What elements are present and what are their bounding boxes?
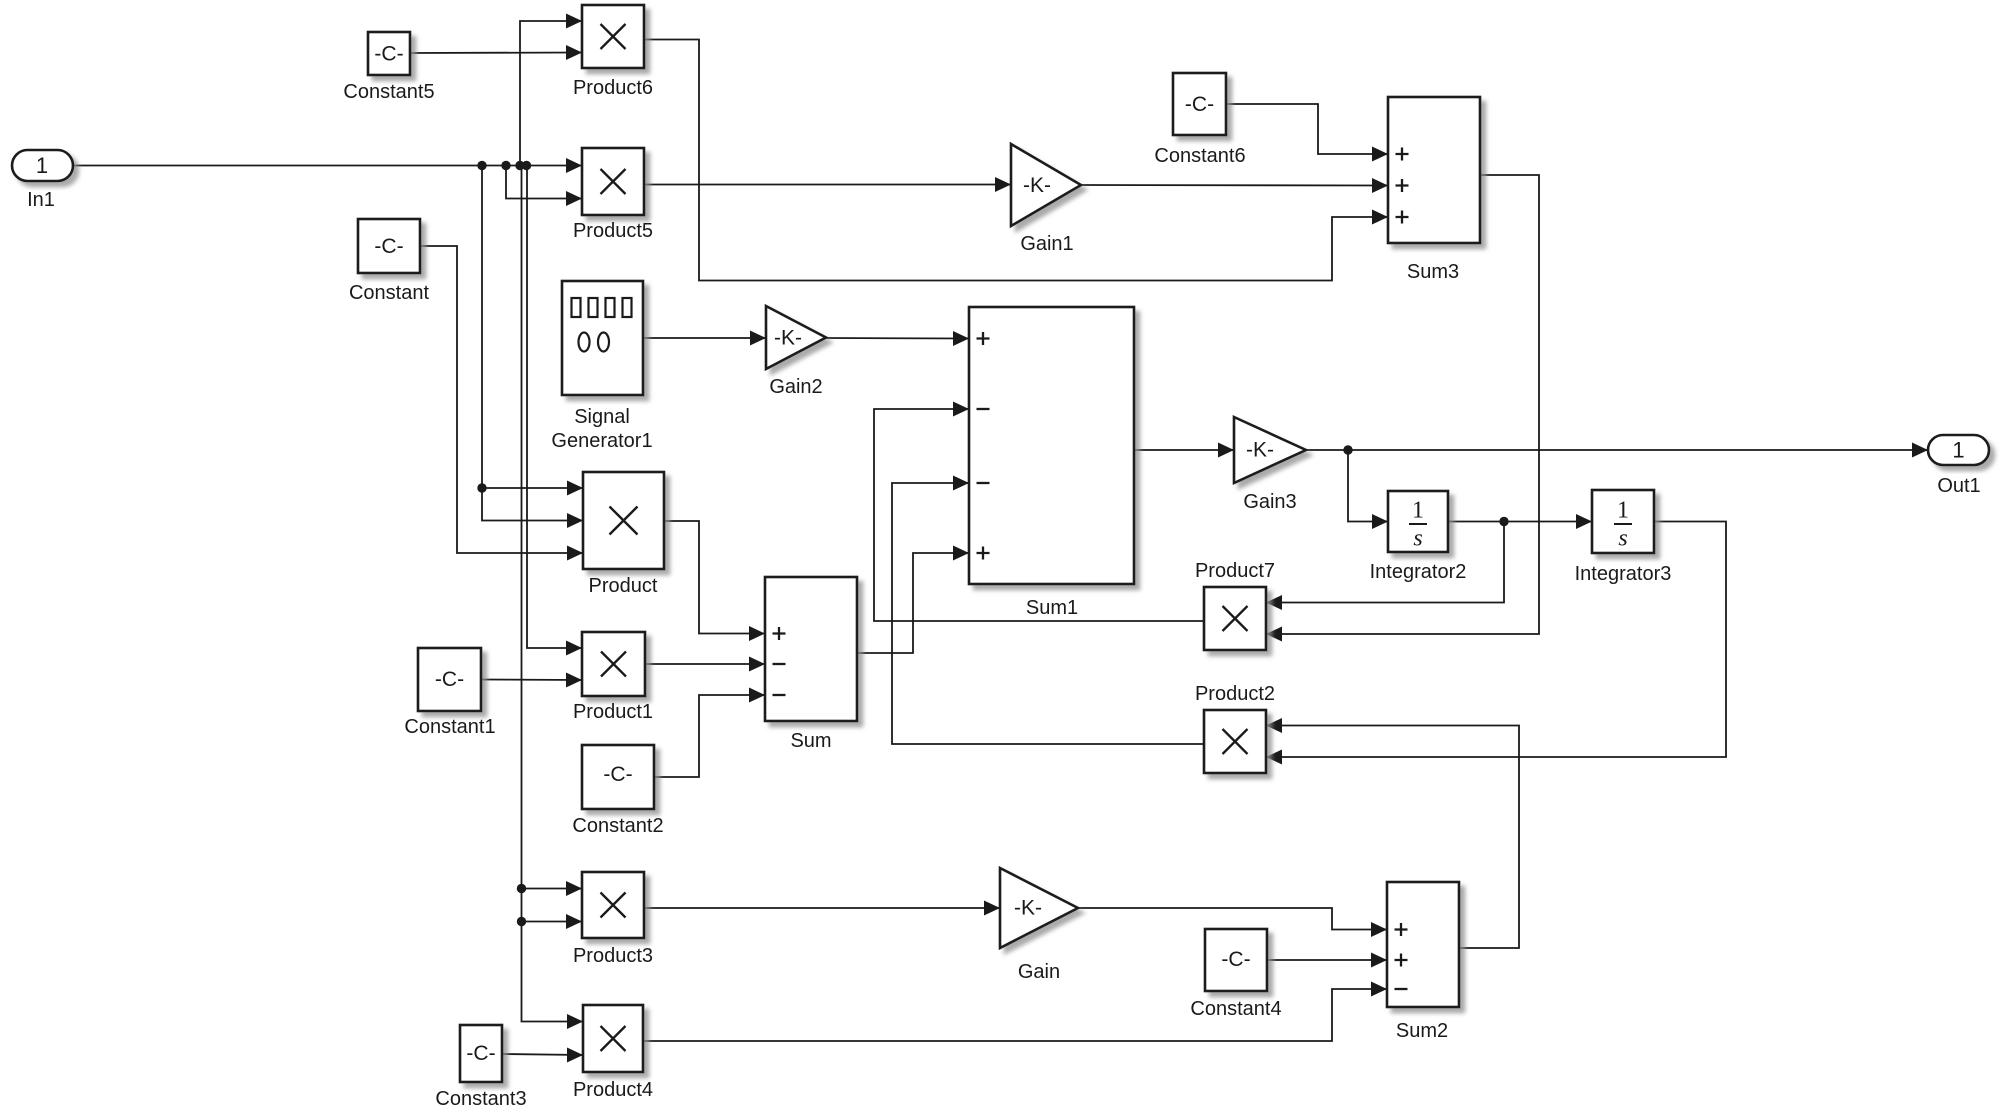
wire Constant2 to Sum input 3 [654, 695, 765, 777]
wire branch down to Product5 input 2 [506, 166, 582, 199]
svg-text:Generator1: Generator1 [551, 430, 652, 452]
svg-text:Sum: Sum [790, 730, 831, 752]
product Product2 [1204, 710, 1266, 773]
wire Integrator2 output to Integrator3 input [1448, 521, 1592, 523]
wire Sum2 output to Product2 input 1 [1266, 726, 1519, 949]
wire Constant5 to Product6 input 2 [410, 52, 582, 55]
svg-text:s: s [1413, 526, 1422, 552]
wire junction to Product input 1 [482, 487, 583, 489]
svg-text:s: s [1618, 526, 1627, 552]
svg-text:Product: Product [589, 575, 658, 597]
product Product3 [582, 872, 644, 938]
constant Constant2 [582, 745, 654, 809]
svg-text:-C-: -C- [466, 1042, 495, 1065]
sum Sum2 [1387, 882, 1459, 1007]
svg-text:Product1: Product1 [573, 701, 653, 723]
svg-text:Constant1: Constant1 [404, 716, 495, 738]
wire Product4 output to Sum2 input 3 [643, 989, 1387, 1041]
wire branch down to Product1 input 1 [527, 166, 582, 649]
svg-text:-C-: -C- [374, 235, 403, 258]
product Product (three inputs) [583, 472, 664, 569]
wire long branch down to Product4 input 1 [522, 166, 584, 1022]
constant Constant3 [460, 1025, 502, 1082]
svg-text:Sum3: Sum3 [1407, 261, 1459, 283]
wire Constant4 to Sum2 input 2 [1267, 959, 1387, 961]
product Product6 [582, 5, 644, 68]
wire Product6 output to Sum3 input 3 [644, 40, 1388, 281]
wire branch up to Product6 input 1 [520, 21, 582, 166]
wire Gain output to Sum2 input 1 [1078, 908, 1387, 930]
svg-text:-K-: -K- [1023, 174, 1051, 197]
wire Product7 output to Sum1 input 2 [874, 409, 1204, 621]
svg-text:Product7: Product7 [1195, 560, 1275, 582]
wire Product1 output to Sum input 2 [645, 663, 765, 665]
constant Constant4 [1205, 929, 1267, 991]
wire Product5 output to Gain1 [644, 184, 1011, 186]
node junction Gain3 output [1343, 445, 1352, 454]
node junction In1/Product branch [477, 161, 486, 170]
constant Constant [358, 219, 420, 273]
constant Constant5 [368, 32, 410, 75]
wire Signal Generator1 to Gain2 [643, 337, 766, 339]
wire Gain2 to Sum1 input 1 [826, 337, 969, 340]
node junction In1/Product5 branch [501, 161, 510, 170]
svg-text:Constant6: Constant6 [1154, 145, 1245, 167]
svg-text:Integrator2: Integrator2 [1370, 561, 1467, 583]
node junction Product3 input 1 [517, 884, 526, 893]
node junction Integrator2 output [1499, 517, 1508, 526]
gain Gain2 [766, 306, 826, 369]
svg-text:-K-: -K- [774, 327, 802, 350]
wire Sum1 output to Gain3 [1134, 449, 1234, 451]
wire Integrator3 output to Product2 input 2 [1266, 522, 1726, 758]
wire Gain1 to Sum3 input 2 [1081, 184, 1388, 187]
signal generator Signal Generator1 [562, 281, 643, 395]
svg-text:Constant5: Constant5 [343, 81, 434, 103]
output port Out1 [1928, 435, 1989, 465]
product Product5 [582, 148, 644, 215]
svg-text:Product3: Product3 [573, 945, 653, 967]
svg-text:1: 1 [1412, 498, 1424, 524]
svg-text:In1: In1 [27, 189, 55, 211]
svg-text:1: 1 [36, 153, 48, 178]
svg-text:Gain: Gain [1018, 961, 1060, 983]
wire junction to Product3 input 2 [522, 921, 583, 923]
wire Constant6 to Sum3 input 1 [1226, 104, 1388, 154]
svg-text:Constant3: Constant3 [435, 1088, 526, 1110]
node junction In1/Product1-Product3 branch [522, 161, 531, 170]
constant Constant1 [418, 648, 481, 711]
wire Constant to Product input 3 [420, 246, 583, 553]
svg-text:Gain1: Gain1 [1020, 233, 1073, 255]
integrator Integrator3 [1592, 490, 1654, 553]
wire Constant3 to Product4 input 2 [502, 1054, 583, 1055]
wire junction to Product3 input 1 [522, 888, 583, 890]
input port In1 [12, 150, 73, 181]
svg-text:Sum2: Sum2 [1396, 1020, 1448, 1042]
wire Constant1 to Product1 input 2 [481, 679, 582, 682]
wire branch down to Product inputs 1 and 2 [482, 166, 583, 521]
svg-text:Product2: Product2 [1195, 683, 1275, 705]
constant Constant6 [1173, 73, 1226, 135]
svg-text:-C-: -C- [1221, 948, 1250, 971]
sum Sum [765, 577, 857, 721]
svg-text:Product5: Product5 [573, 220, 653, 242]
node junction In1/Product6 branch [515, 161, 524, 170]
svg-text:Integrator3: Integrator3 [1575, 563, 1672, 585]
wire Sum output to Sum1 input 4 [857, 553, 969, 653]
sum Sum3 [1388, 97, 1480, 243]
wire In1 main line to Product5 input 1 [73, 165, 582, 167]
integrator Integrator2 [1388, 491, 1448, 552]
svg-text:-C-: -C- [374, 43, 403, 66]
svg-text:Gain2: Gain2 [769, 376, 822, 398]
wire Gain3 output to Out1 [1306, 449, 1928, 451]
svg-text:Constant: Constant [349, 282, 429, 304]
svg-text:Product4: Product4 [573, 1079, 653, 1101]
svg-text:-K-: -K- [1014, 897, 1042, 920]
node junction Product3 input 2 [517, 917, 526, 926]
svg-text:Constant4: Constant4 [1190, 998, 1281, 1020]
svg-text:Product6: Product6 [573, 77, 653, 99]
svg-text:1: 1 [1617, 498, 1629, 524]
wire branch down to Integrator2 input [1348, 450, 1388, 522]
product Product1 [582, 632, 645, 696]
svg-text:-C-: -C- [1185, 93, 1214, 116]
wire Product2 output to Sum1 input 3 [892, 483, 1204, 744]
wire Product output to Sum input 1 [664, 521, 765, 634]
gain Gain [1000, 868, 1078, 948]
gain Gain3 [1234, 417, 1306, 483]
svg-text:Sum1: Sum1 [1026, 597, 1078, 619]
node junction on Product input-1 branch [477, 483, 486, 492]
svg-text:Constant2: Constant2 [572, 815, 663, 837]
svg-text:Out1: Out1 [1937, 475, 1980, 497]
sum Sum1 [969, 307, 1134, 584]
svg-text:-K-: -K- [1246, 439, 1274, 462]
svg-text:Signal: Signal [574, 406, 630, 428]
product Product7 [1204, 587, 1266, 650]
product Product4 [583, 1005, 643, 1072]
wire Product3 output to Gain [644, 907, 1000, 909]
gain Gain1 [1011, 144, 1081, 226]
svg-text:-C-: -C- [603, 763, 632, 786]
wire Sum3 output to Product7 input 2 [1266, 175, 1539, 634]
svg-text:-C-: -C- [435, 668, 464, 691]
wire junction down to Product7 input 1 [1266, 522, 1504, 603]
svg-text:Gain3: Gain3 [1243, 491, 1296, 513]
svg-text:1: 1 [1952, 438, 1964, 463]
